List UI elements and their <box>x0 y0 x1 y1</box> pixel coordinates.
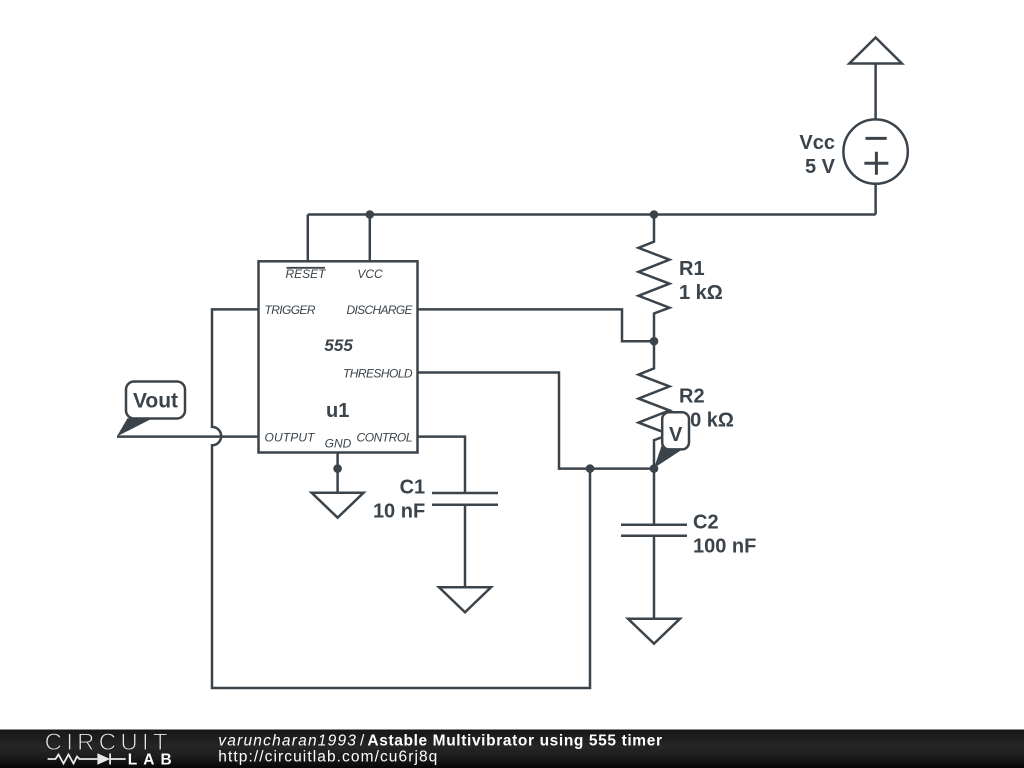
svg-text:http://circuitlab.com/cu6rj8q: http://circuitlab.com/cu6rj8q <box>218 749 437 766</box>
svg-text:Astable Multivibrator using 55: Astable Multivibrator using 555 timer <box>367 733 662 750</box>
svg-text:CONTROL: CONTROL <box>357 430 413 444</box>
svg-text:10 nF: 10 nF <box>373 501 425 523</box>
svg-text:THRESHOLD: THRESHOLD <box>343 366 413 380</box>
svg-text:VCC: VCC <box>357 267 383 281</box>
svg-text:Vout: Vout <box>133 390 178 413</box>
svg-text:GND: GND <box>325 437 352 451</box>
svg-text:TRIGGER: TRIGGER <box>265 303 316 317</box>
svg-text:varuncharan1993: varuncharan1993 <box>218 733 356 750</box>
svg-text:1 kΩ: 1 kΩ <box>679 282 723 304</box>
svg-text:/: / <box>360 733 365 750</box>
svg-text:100 nF: 100 nF <box>693 535 756 557</box>
svg-text:C1: C1 <box>400 476 426 498</box>
svg-text:5 V: 5 V <box>805 156 836 178</box>
svg-text:OUTPUT: OUTPUT <box>265 430 317 444</box>
svg-text:LAB: LAB <box>128 751 173 768</box>
svg-text:C2: C2 <box>693 512 719 534</box>
svg-text:RESET: RESET <box>285 267 327 281</box>
svg-text:V: V <box>669 424 683 446</box>
svg-text:Vcc: Vcc <box>799 132 835 154</box>
svg-text:555: 555 <box>324 336 353 355</box>
svg-text:R1: R1 <box>679 258 705 280</box>
svg-text:DISCHARGE: DISCHARGE <box>347 303 414 317</box>
svg-text:R2: R2 <box>679 385 705 407</box>
svg-text:u1: u1 <box>326 400 349 422</box>
